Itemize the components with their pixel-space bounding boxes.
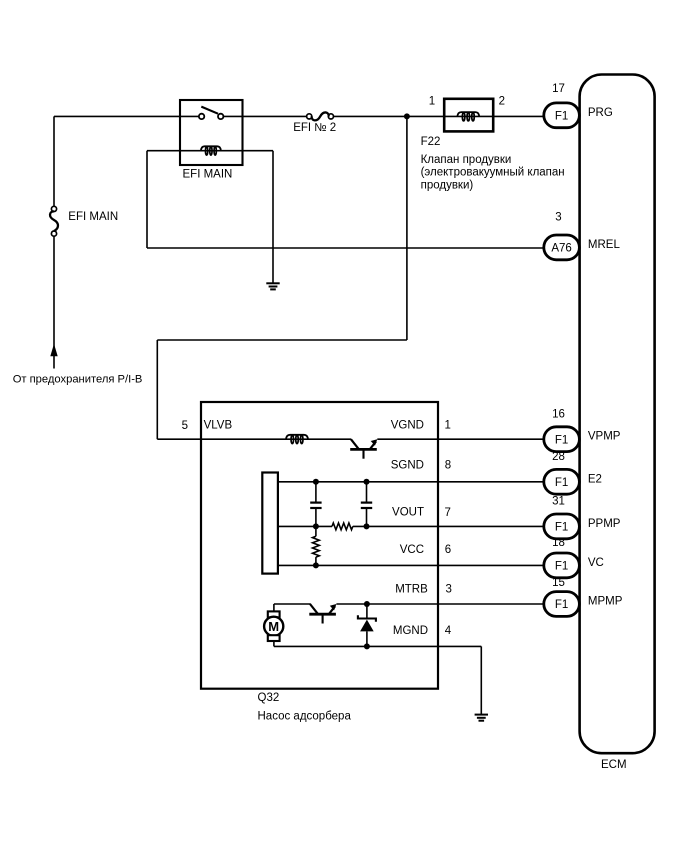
svg-text:F1: F1 [555,522,568,534]
relay EFI MAIN box [180,100,243,165]
svg-text:31: 31 [552,496,565,508]
svg-text:MGND: MGND [393,625,428,637]
wire MGND [274,645,481,647]
svg-text:28: 28 [552,451,565,463]
zener diode D1 [364,601,370,607]
capacitor [366,482,368,503]
resistor R1 [332,523,353,530]
node junction [404,113,410,119]
svg-text:MREL: MREL [588,239,621,251]
wire VLVB [157,438,351,440]
svg-text:Насос адсорбера: Насос адсорбера [258,711,352,723]
ground [266,283,279,289]
svg-text:F1: F1 [555,110,568,122]
wire [146,151,148,248]
wire [156,340,158,439]
svg-text:Клапан продувки: Клапан продувки [421,154,512,166]
motor M [273,604,275,611]
wire SGND [278,481,544,483]
svg-text:SGND: SGND [391,460,424,472]
wire [157,339,407,341]
transistor Q2 [310,604,318,614]
connector F1 pin 15 MPMP [544,592,580,617]
svg-text:PPMP: PPMP [588,518,621,530]
svg-text:8: 8 [445,460,451,472]
wire MTRB [336,603,543,605]
connector F1 pin 28 E2 [544,469,580,494]
wire [223,115,306,117]
svg-text:4: 4 [445,625,452,637]
svg-text:EFI MAIN: EFI MAIN [183,168,233,180]
svg-text:VCC: VCC [400,544,424,556]
svg-text:VOUT: VOUT [392,507,424,519]
svg-text:Q32: Q32 [258,692,280,704]
pressure sensor element [262,473,278,574]
svg-text:F1: F1 [555,477,568,489]
connector F1 pin 17 PRG [544,103,580,128]
svg-text:F1: F1 [555,434,568,446]
relay switch contacts [199,114,204,119]
svg-text:MTRB: MTRB [395,584,428,596]
connector A76 pin 3 MREL [544,235,580,260]
svg-text:VC: VC [588,557,604,569]
svg-text:VPMP: VPMP [588,431,621,443]
connector F1 pin 18 VC [544,553,580,578]
transistor Q1 [351,439,359,449]
pump Q32 box [201,402,438,689]
fuse EFI No2 [307,114,312,119]
wire [53,116,55,206]
svg-text:1: 1 [429,95,435,107]
svg-text:6: 6 [445,544,451,556]
inductor L1 [286,435,308,439]
wire [54,115,199,117]
svg-text:1: 1 [445,420,451,432]
svg-text:ECM: ECM [601,759,627,771]
wire [272,151,274,284]
svg-text:E2: E2 [588,473,602,485]
svg-text:EFI MAIN: EFI MAIN [68,211,118,223]
wire [480,646,482,714]
wire with arrow from fuse P/I-B [53,236,55,368]
svg-text:2: 2 [499,95,505,107]
svg-text:M: M [268,619,279,634]
resistor R2 [315,526,317,536]
wire VCC [278,564,544,566]
F22 purge valve solenoid [444,99,493,132]
svg-text:PRG: PRG [588,107,613,119]
svg-text:3: 3 [555,212,561,224]
svg-text:F1: F1 [555,599,568,611]
wire VOUT [278,525,332,527]
connector F1 pin 31 PPMP [544,514,580,539]
connector F1 pin 16 VPMP [544,427,580,452]
wire [147,247,544,249]
svg-text:3: 3 [446,584,452,596]
relay coil [147,150,273,152]
svg-text:17: 17 [552,83,565,95]
svg-text:5: 5 [182,420,188,432]
wire [274,603,311,605]
svg-text:VLVB: VLVB [204,420,233,432]
fuse EFI MAIN [51,206,56,211]
svg-text:VGND: VGND [391,419,424,431]
svg-text:MPMP: MPMP [588,596,623,608]
svg-text:7: 7 [445,507,451,519]
svg-text:продувки): продувки) [421,180,474,192]
wire [406,116,408,340]
wire VGND [377,438,544,440]
svg-text:F22: F22 [421,136,441,148]
wire [334,115,544,117]
svg-text:(электровакуумный клапан: (электровакуумный клапан [421,167,565,179]
svg-text:16: 16 [552,408,565,420]
capacitor [315,482,317,503]
svg-text:F1: F1 [555,561,568,573]
svg-text:18: 18 [552,537,565,549]
svg-text:15: 15 [552,577,565,589]
svg-text:От предохранителя P/I-B: От предохранителя P/I-B [13,373,143,385]
ground [475,715,488,721]
ECM box [580,75,655,754]
svg-text:A76: A76 [551,243,571,255]
svg-text:EFI № 2: EFI № 2 [293,122,336,134]
